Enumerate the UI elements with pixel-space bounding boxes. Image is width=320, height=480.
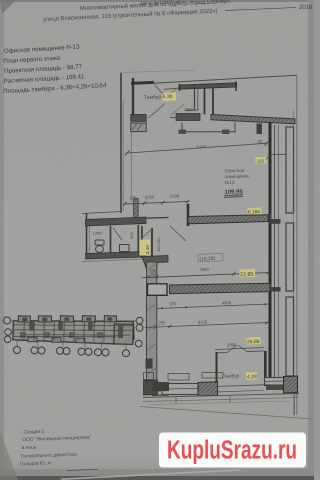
porch rectangle below wall [182,123,235,132]
wall stub above bathroom [134,199,139,218]
office top wall band (right part) [211,115,295,124]
key plan bottom notches [28,337,37,342]
office room right wall [269,122,272,388]
frame top line main (curved) [135,75,297,84]
tambur2 top line + door [217,351,228,353]
key plan top bumps [18,316,30,322]
bottom wall: window 2 [265,378,286,386]
tambur2 door swings [227,346,237,353]
top-left corner smudge [0,0,16,14]
toilet partition 2 [137,225,139,257]
pier inner hatch [132,124,137,131]
pier tick left of top bar [179,84,181,91]
middle room dim line y277 [142,273,271,278]
dim line y202 [124,202,188,205]
wall stub below band [257,124,263,135]
corner block below bathroom [142,256,168,269]
highlight 110 office [256,157,267,164]
dim dots y307 [161,307,163,309]
balcony rect 1 [286,127,294,213]
tambur left wall [132,78,134,116]
connector wall at y215 right strip [267,215,272,220]
tambur shaft shelf [186,109,198,112]
highlight 4,28 [246,372,257,380]
pier block lower edge [131,123,146,132]
key plan extra marks [20,332,26,338]
bar left thin extension [164,88,179,89]
bottom wall: pier 3 [284,376,298,393]
tambur right wall [194,85,196,110]
lower room dim line y307 [157,304,269,309]
left wall column block [146,359,153,369]
connector tick at y154 [271,153,286,156]
left boundary wall [120,73,122,213]
axis circles right column [136,317,143,324]
header underline [225,8,296,11]
left wall band hatch [148,264,156,270]
key plan main band [13,319,134,345]
key plan internal lines [13,319,133,342]
bathroom bottom wall [86,252,147,260]
highlight 6,166 [247,208,261,215]
faint wall line below pier [130,132,132,202]
office top wall band (left part) [176,114,200,121]
entrance door swing 2 [166,87,179,98]
bottom paper edge diagonal [60,469,241,480]
bottom wall: pier 1 [144,380,158,395]
dim ticks y277 [146,276,150,280]
bathroom left wall [86,214,88,259]
tambur2 right wall [264,351,267,386]
bottom small stub rects above wall [144,373,154,380]
shaft door swing [143,228,153,237]
dim arrow at band left [170,117,176,119]
bottom wall: pier 2 [198,382,218,396]
toilet partition 1 [110,226,112,257]
pier tick right end of top bar [235,82,237,92]
bottom left step blocks [153,382,170,392]
dim ticks y202 [123,202,127,206]
connector wall at y284 right strip [270,287,281,292]
left exterior wall band (lower) [147,262,157,382]
sink [120,245,130,252]
entrance door swing 1 [155,85,167,98]
bathroom block outline top line [82,212,122,214]
highlight 6,36 [162,93,176,101]
bathroom bottom outer lines [82,259,146,262]
bathroom right wall [141,226,143,258]
long interior wall hatched [170,283,271,293]
key plan right block [114,324,133,344]
office bottom wall left thin part [146,216,169,219]
porch rect left end dark [179,130,187,135]
frame top line upper [122,70,196,72]
bathroom door swing [113,228,122,240]
balcony rect 2 [286,223,294,291]
axis circles bottom row [14,347,21,354]
entrance door swing 4 [170,104,184,116]
wall opening box left (window in left wall) [148,284,168,296]
office dim line [128,143,267,153]
cleaning room right wall [151,228,153,258]
pier block left-mid [131,115,146,122]
axis leader lines [11,321,137,350]
entrance door swing 3 [149,104,166,119]
bottom outer face lines [143,394,299,398]
bottom wall: window 1 [162,384,198,395]
office bottom wall hatched right part [188,215,268,224]
door jamb wall x187 [187,204,190,226]
tambur2 dim line y348 [215,348,264,350]
key plan interior darks [29,322,34,331]
porch rect right end dark [222,130,230,135]
bottom dark strip (photo edge) [0,469,314,477]
frame right double line [293,110,295,416]
bottom-left corner shade [0,430,18,480]
office dim tick left [125,151,130,156]
highlight 26,88 [246,337,260,344]
signature line [67,469,98,470]
office dim tick right [265,141,270,146]
highlight 3,40 vertical [140,240,151,256]
bathroom top wall thick [86,217,147,226]
vertical ticks below bottom wall [175,397,177,404]
office bottom door swing [170,226,186,241]
highlight 22,95 [239,269,255,278]
bottom leader line sloping [140,407,312,420]
right strip inner line 1 [274,125,276,390]
tambur top bar right [179,83,237,89]
axis circles left column [4,317,143,357]
toilet [95,240,104,245]
tambur2 threshold lines [217,385,265,387]
lower room dim line y326 [145,323,269,328]
tambur top wall [131,82,154,83]
balcony rect 3 [286,297,294,376]
porch wall right of tambur [204,89,206,115]
tambur2 left wall [216,352,218,386]
dim ticks y326 [154,325,158,329]
